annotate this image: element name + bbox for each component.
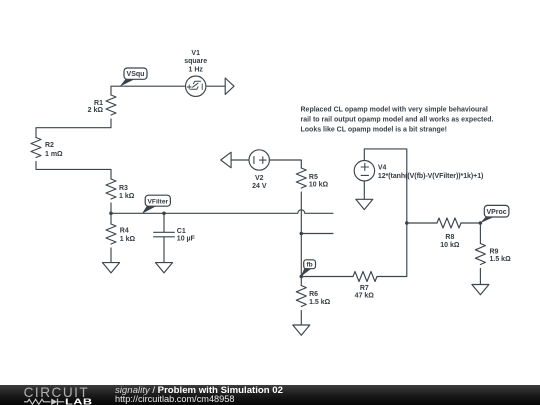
- svg-text:VProc: VProc: [486, 209, 506, 216]
- voltage source V1: [186, 76, 206, 96]
- svg-text:square: square: [184, 58, 207, 65]
- svg-text:C1: C1: [177, 228, 186, 235]
- net flag VFilter: [142, 195, 171, 214]
- svg-text:R7: R7: [360, 285, 369, 292]
- footer bar: [0, 385, 540, 405]
- resistor R2: [31, 138, 41, 158]
- annotation note: [301, 106, 494, 133]
- svg-text:1 kΩ: 1 kΩ: [119, 193, 135, 200]
- wire feedback column to V4 top: [364, 149, 407, 223]
- svg-text:V2: V2: [255, 175, 264, 182]
- ground under R6: [293, 325, 310, 335]
- voltage source V4: [354, 161, 374, 181]
- wire R2 bottom to R3 top: [36, 162, 111, 180]
- svg-text:R5: R5: [309, 174, 318, 181]
- svg-text:24 V: 24 V: [252, 183, 267, 190]
- resistor R4: [106, 224, 116, 244]
- capacitor C1: [154, 232, 175, 237]
- node junction R3 R4 rail: [109, 212, 113, 216]
- wire C1 bottom lead: [163, 237, 165, 263]
- svg-text:1 kΩ: 1 kΩ: [120, 236, 136, 243]
- svg-text:1.5 kΩ: 1.5 kΩ: [309, 299, 331, 306]
- svg-text:2 kΩ: 2 kΩ: [88, 107, 104, 114]
- resistor R6: [296, 286, 306, 307]
- ground under C1: [156, 263, 173, 273]
- wire R1 bottom to R2 top: [36, 119, 111, 138]
- wire port to V2: [231, 159, 250, 161]
- svg-text:V1: V1: [191, 50, 200, 57]
- node junction fb: [300, 275, 304, 279]
- wire node to R4 top: [110, 213, 112, 224]
- wire R7 to feedback column: [377, 223, 407, 277]
- svg-text:VFilter: VFilter: [148, 198, 169, 205]
- svg-text:Looks like CL opamp model is a: Looks like CL opamp model is a bit stran…: [301, 126, 448, 133]
- wire R4 bottom to ground: [110, 248, 112, 263]
- svg-text:rail to rail output opamp mode: rail to rail output opamp model and all …: [301, 116, 494, 123]
- ground under R9: [472, 285, 489, 295]
- svg-text:V4: V4: [378, 164, 387, 171]
- net flag VProc: [480, 205, 509, 223]
- ground under V4: [356, 199, 373, 209]
- resistor R5: [296, 168, 306, 188]
- svg-text:R9: R9: [490, 248, 499, 255]
- wire R5 bottom through rail to fb node: [300, 192, 302, 277]
- node junction R8 left: [405, 221, 409, 225]
- node junction VProc: [479, 221, 483, 225]
- net flag fb: [301, 260, 316, 277]
- node junction opamp stub: [300, 232, 304, 236]
- svg-text:fb: fb: [306, 262, 312, 269]
- wire fb node to R6 top: [300, 277, 302, 286]
- port terminal at V2: [221, 152, 231, 168]
- resistor R3: [106, 179, 116, 199]
- wire R9 bottom to ground: [479, 269, 481, 285]
- svg-text:LAB: LAB: [65, 397, 93, 405]
- wire VProc node to R9 top: [479, 223, 481, 244]
- ground under R4: [103, 263, 120, 273]
- resistor R9: [475, 244, 485, 265]
- wire V2 to R5 top: [269, 160, 301, 168]
- wire V4 bottom to ground: [363, 181, 365, 199]
- svg-text:47 kΩ: 47 kΩ: [355, 293, 375, 300]
- wire VFilter rail with hop over R5 branch: [111, 210, 333, 214]
- svg-text:R3: R3: [119, 185, 128, 192]
- svg-text:R4: R4: [120, 227, 129, 234]
- CircuitLab logo: [18, 385, 118, 405]
- svg-text:Replaced CL opamp model with v: Replaced CL opamp model with very simple…: [301, 106, 488, 113]
- resistor R1: [106, 95, 116, 115]
- footer url: [115, 394, 235, 404]
- wire R8 to VProc node: [461, 222, 480, 224]
- port terminal at V1 output: [225, 78, 234, 94]
- svg-text:VSqu: VSqu: [127, 71, 145, 78]
- svg-text:R6: R6: [309, 291, 318, 298]
- wire R3 bottom to node: [110, 203, 112, 213]
- svg-text:12*(tanh((V(fb)-V(VFilter))*1k: 12*(tanh((V(fb)-V(VFilter))*1k)+1): [378, 173, 483, 180]
- svg-text:R8: R8: [445, 234, 454, 241]
- svg-text:1.5 kΩ: 1.5 kΩ: [490, 256, 512, 263]
- wire R6 bottom to ground: [300, 311, 302, 326]
- wire C1 top lead: [163, 213, 165, 232]
- svg-text:10 kΩ: 10 kΩ: [309, 182, 329, 189]
- wire V1 right to port: [206, 85, 225, 87]
- resistor R7: [353, 272, 377, 282]
- wire fb node to R7: [301, 276, 353, 278]
- net flag VSqu: [120, 68, 147, 87]
- svg-text:10 kΩ: 10 kΩ: [440, 242, 460, 249]
- wire node to R8: [407, 222, 437, 224]
- node junction C1 top: [162, 212, 166, 216]
- footer title: [115, 385, 283, 396]
- resistor R8: [437, 218, 461, 228]
- wire R1 top to V1 left: [111, 86, 186, 95]
- svg-text:10 µF: 10 µF: [177, 236, 196, 243]
- wire opamp input stub: [301, 233, 333, 235]
- svg-text:1 Hz: 1 Hz: [188, 67, 203, 74]
- voltage source V2: [249, 150, 269, 170]
- svg-text:1 mΩ: 1 mΩ: [45, 151, 63, 158]
- svg-text:R2: R2: [45, 142, 54, 149]
